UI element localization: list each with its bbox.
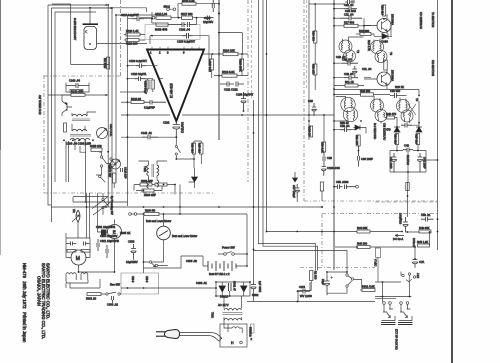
svg-text:UM-3: UM-3	[131, 276, 135, 283]
resistor R110	[156, 16, 171, 19]
diode D4	[355, 125, 360, 130]
right sheet border line	[451, 0, 453, 363]
transistor Q4	[377, 72, 391, 86]
svg-text:C42 100P: C42 100P	[423, 157, 427, 169]
svg-text:Batt and Lever Meter: Batt and Lever Meter	[172, 234, 197, 238]
svg-text:C804 10µF/6V: C804 10µF/6V	[100, 234, 118, 238]
wire sw area	[66, 141, 111, 182]
ferrite antenna FA1 inner line	[85, 31, 87, 34]
wire motor bottom	[79, 245, 115, 273]
press switch lever	[104, 200, 109, 206]
AF bus x266.5	[266, 0, 268, 232]
resistor R115 vertical	[240, 59, 243, 70]
section boundary dash horizontal top-left	[44, 75, 120, 77]
ferrite antenna FA1 top bar	[83, 23, 99, 25]
wire jacks top	[383, 272, 410, 303]
electrolytic C803	[131, 244, 136, 260]
svg-text:R408 4PB: R408 4PB	[155, 28, 167, 32]
svg-text:EXT SP JACK 8Ω: EXT SP JACK 8Ω	[395, 329, 399, 350]
svg-text:C308 .02: C308 .02	[107, 303, 118, 307]
wire y95 left	[48, 94, 71, 96]
wire R114	[202, 33, 248, 54]
resistor R17	[344, 24, 358, 27]
wire y4 top	[52, 3, 71, 5]
wire R30 leads	[314, 4, 316, 90]
electrolytic C136 vertical	[146, 80, 150, 89]
capacitor C120	[121, 168, 123, 172]
svg-text:50/60Hz: 50/60Hz	[249, 327, 253, 337]
band switch S1-1 lever	[102, 158, 107, 164]
svg-text:C28 .04: C28 .04	[344, 72, 354, 76]
right bus x437.5	[437, 0, 439, 250]
jack sw lever	[406, 275, 412, 282]
resistor R301	[87, 293, 101, 296]
svg-text:R19 1K: R19 1K	[395, 85, 404, 89]
mic jack contact b	[134, 213, 137, 216]
capacitor C118	[144, 100, 166, 105]
page left edge lower	[0, 150, 2, 255]
wire y8.7	[334, 8, 344, 10]
wire y247	[335, 246, 415, 248]
capacitor C110	[134, 77, 145, 82]
svg-text:10µF/6V: 10µF/6V	[203, 20, 213, 24]
rec switch S3a	[149, 261, 151, 263]
electrolytic C34	[322, 166, 327, 176]
capacitor C811	[298, 289, 310, 294]
IF bus x334	[333, 0, 335, 270]
wire sw2 row	[140, 9, 173, 18]
C809 plus	[331, 276, 334, 279]
svg-text:C160 10µF/4T: C160 10µF/4T	[236, 93, 254, 97]
resistor R119	[126, 33, 140, 36]
resistor R42 vertical	[320, 182, 323, 191]
motor sw levers	[348, 276, 352, 285]
motor M	[71, 250, 86, 265]
IC pin ticks top	[152, 47, 199, 50]
svg-text:9: 9	[183, 51, 185, 55]
wire R113	[214, 75, 248, 77]
T4 T5 leads	[374, 96, 410, 123]
resistor R113	[222, 74, 237, 77]
trimmer CT101 arrow	[98, 129, 107, 138]
wire top y4	[309, 3, 345, 5]
svg-text:C114 6.2µF/4T: C114 6.2µF/4T	[121, 13, 139, 17]
svg-text:Power SW: Power SW	[222, 246, 235, 250]
svg-text:2SC633A: 2SC633A	[391, 14, 395, 25]
battery cells	[208, 261, 236, 271]
svg-text:UM-3: UM-3	[145, 276, 149, 283]
svg-text:CM 1222B1AU: CM 1222B1AU	[383, 123, 387, 140]
capacitor C114	[132, 17, 144, 22]
power switch contact a	[224, 253, 227, 256]
rec switch S3b	[155, 264, 157, 266]
svg-text:C141 .01: C141 .01	[141, 131, 152, 135]
resistor R301b	[362, 289, 375, 292]
svg-text:C160 .04S: C160 .04S	[327, 166, 340, 170]
resistor R120	[182, 2, 196, 5]
dashed power box bottom y267	[300, 267, 375, 269]
resistor network R203	[142, 189, 154, 192]
capacitor C24	[352, 0, 354, 4]
T2 leads	[343, 37, 364, 62]
coil leads	[68, 279, 100, 288]
resistor R45	[418, 244, 430, 247]
svg-text:R16 910: R16 910	[380, 5, 384, 15]
electrolytic C27	[353, 66, 358, 77]
band switch S1-2	[110, 158, 112, 160]
AC plug prong2	[156, 335, 165, 337]
svg-text:2SC633A: 2SC633A	[391, 70, 395, 81]
svg-text:10µF/25V: 10µF/25V	[126, 260, 138, 264]
wire C30	[322, 115, 357, 130]
extra junction dots	[63, 3, 438, 297]
svg-text:IC AN-315: IC AN-315	[170, 83, 174, 98]
section boundary dash vertical left AM	[43, 75, 45, 193]
wire y282	[375, 281, 401, 283]
svg-text:C301 10µF/6PB: C301 10µF/6PB	[96, 225, 115, 229]
cap C605	[106, 245, 108, 258]
wires lower mid	[298, 272, 362, 293]
resistor R43	[419, 230, 431, 233]
wire x252.5 lower	[253, 100, 255, 282]
wire x86.5 down	[86, 193, 88, 238]
AC plug body	[165, 330, 180, 339]
section boundary dash vertical x251	[251, 0, 253, 100]
switch S1-3 a	[99, 175, 101, 177]
svg-text:R301 20: R301 20	[86, 297, 97, 301]
T5 winding b	[403, 113, 410, 117]
svg-text:10µF(1C): 10µF(1C)	[181, 122, 185, 133]
capacitor C53b	[345, 185, 356, 190]
svg-text:C20 .04: C20 .04	[344, 3, 354, 7]
wire coil leads	[72, 112, 96, 150]
switch S2 contact b	[175, 153, 177, 155]
FM trimmer CT102	[111, 159, 121, 169]
battery box outline	[121, 273, 159, 294]
electrolytic C7A	[413, 259, 418, 268]
wire R18	[356, 34, 374, 36]
svg-text:J-12: J-12	[416, 273, 420, 279]
svg-text:R44 80K: R44 80K	[357, 226, 368, 230]
capacitor C16 top	[345, 0, 354, 4]
svg-text:C23 .04: C23 .04	[336, 55, 346, 59]
svg-text:R45 1.2K: R45 1.2K	[417, 240, 428, 244]
svg-text:C53 .0039: C53 .0039	[336, 180, 349, 184]
svg-text:C7A: C7A	[419, 260, 424, 264]
resistor R23 vertical	[192, 143, 195, 154]
motor resistor R601	[67, 250, 76, 253]
AF bus x258.5	[258, 0, 260, 182]
jack SM-2 contact b	[173, 8, 176, 11]
svg-text:C57 100µF: C57 100µF	[292, 185, 296, 198]
T401 core	[152, 164, 154, 177]
vertical x407.5	[406, 182, 420, 232]
T5 cross	[408, 104, 416, 115]
svg-text:R43 80K: R43 80K	[419, 226, 430, 230]
network wires	[134, 185, 175, 195]
svg-text:Batt and Lever Meter: Batt and Lever Meter	[146, 219, 171, 223]
dashed power box horizontal y214	[322, 213, 437, 215]
wire x143.5 to box	[143, 268, 145, 273]
wire IC out down	[175, 137, 177, 145]
wire top h y12	[55, 11, 96, 13]
junction dots bottom	[78, 206, 439, 302]
svg-text:AC 117V: AC 117V	[218, 303, 229, 307]
wire can row	[334, 95, 407, 96]
electrolytic C42	[418, 153, 423, 172]
wire c811	[254, 282, 311, 301]
svg-text:R423 102: R423 102	[90, 144, 102, 148]
jack J2 contact b	[406, 302, 409, 305]
svg-text:R419 1K: R419 1K	[307, 126, 311, 136]
rec switch lever	[108, 292, 116, 294]
dashed power box vertical x322	[321, 214, 323, 267]
wire D401	[194, 168, 196, 188]
aux jack rect	[376, 248, 381, 258]
ext jack sw contacts	[402, 274, 404, 276]
jack J1 base	[381, 323, 396, 325]
second winding	[147, 180, 159, 188]
wire C114	[128, 12, 153, 19]
capacitor C141	[142, 135, 158, 140]
wire x335	[333, 232, 335, 248]
Q3 internals	[382, 20, 388, 31]
svg-text:R301 5.6K: R301 5.6K	[362, 285, 375, 289]
wire meter	[163, 214, 165, 248]
diode D3	[416, 127, 422, 132]
resistor R22	[387, 116, 395, 119]
wire into IC pin1	[124, 18, 197, 40]
svg-text:VR: VR	[72, 209, 76, 213]
capacitor C26	[342, 61, 358, 66]
wire antenna riser x70.7	[70, 4, 72, 65]
more junction dots	[143, 17, 358, 248]
resistor R424 vertical	[113, 173, 116, 183]
resistor R304	[144, 213, 159, 216]
svg-text:R120 3.6K: R120 3.6K	[182, 0, 195, 3]
press switch S601 a	[102, 198, 104, 200]
resistor R112	[126, 39, 139, 42]
vertical x180	[179, 185, 181, 215]
svg-text:R117 390: R117 390	[181, 12, 193, 16]
wire C100	[128, 65, 158, 67]
resistor R30 vertical	[314, 31, 317, 43]
coil L601a	[66, 273, 76, 283]
svg-text:FM SECTION: FM SECTION	[431, 60, 435, 76]
svg-text:R113 5.6K: R113 5.6K	[222, 70, 235, 74]
wire diag to VR	[92, 193, 112, 215]
AF bus x263	[262, 0, 264, 207]
jack SM-2 contact a	[167, 8, 170, 11]
capacitor C28	[344, 76, 358, 81]
capacitor C40	[403, 148, 413, 153]
jack J2 contact a	[400, 302, 403, 305]
wire y137	[121, 136, 176, 138]
wire bus x127.5	[127, 15, 129, 206]
junction dots IF	[308, 3, 438, 173]
Q4 internals	[382, 74, 388, 85]
wire C110	[128, 78, 154, 80]
vertical x143.5	[143, 216, 145, 269]
svg-text:1: 1	[150, 51, 152, 55]
wire y214 to 247	[180, 213, 247, 215]
erase head circle E	[108, 225, 122, 239]
resistor R419 vertical	[309, 126, 312, 137]
svg-text:470: 470	[386, 128, 391, 132]
svg-text:SM-2: SM-2	[164, 5, 171, 9]
rec switch lever	[151, 263, 155, 267]
wire meter to rec switch	[152, 248, 164, 262]
wire Q101 collector	[62, 95, 71, 116]
svg-text:100µF/10: 100µF/10	[399, 213, 403, 225]
svg-text:C33: C33	[327, 156, 332, 160]
svg-text:C132: C132	[163, 121, 170, 125]
switch S1-3 lever	[101, 177, 106, 182]
wire R23 R25	[194, 141, 201, 168]
resistor R1 vertical	[310, 271, 313, 281]
motor caps C602	[84, 242, 90, 246]
capacitor C105 above IC	[182, 33, 193, 39]
wire y186	[297, 191, 322, 202]
AC cord 2	[180, 336, 221, 342]
svg-text:R114 10K: R114 10K	[223, 49, 235, 53]
voltage selector box	[220, 324, 247, 347]
svg-text:TA SECTION: TA SECTION	[431, 12, 435, 27]
dashed line y202 right	[375, 201, 437, 203]
capacitor C122	[236, 82, 244, 87]
resistor R21 vertical	[357, 135, 360, 146]
D802 bar	[241, 285, 248, 287]
capacitor C50	[390, 93, 401, 98]
diode D2	[394, 127, 400, 132]
rec switch contacts	[106, 293, 108, 295]
capacitor C60	[421, 217, 434, 222]
wire y250.6	[254, 251, 348, 272]
svg-text:R802: R802	[252, 293, 259, 297]
section boundary dash vertical x307	[306, 0, 308, 90]
coil L601b	[81, 273, 88, 280]
svg-text:R17 560: R17 560	[344, 21, 355, 25]
svg-text:R119 1.4K: R119 1.4K	[126, 29, 139, 33]
svg-text:C204: C204	[204, 16, 211, 20]
wire y64.5	[71, 64, 109, 66]
wire det out	[408, 160, 438, 182]
resistor R140	[70, 90, 83, 93]
svg-text:R-6 RECORD: R-6 RECORD	[373, 123, 377, 139]
battery meter circle	[157, 226, 171, 240]
transformer T801 primary	[224, 308, 242, 310]
capacitor C102	[188, 22, 193, 27]
wire D1	[374, 15, 392, 36]
wire det	[381, 101, 419, 127]
svg-text:C808 .01: C808 .01	[196, 281, 207, 285]
capacitor C39	[401, 123, 412, 128]
vertical x247 right	[246, 214, 248, 266]
phono eq box	[145, 25, 200, 40]
IF bus x309	[308, 0, 310, 140]
resistor R26 vertical	[322, 142, 325, 152]
svg-text:Rec SW: Rec SW	[110, 283, 120, 287]
resistor R117	[182, 16, 193, 19]
wire E head	[98, 193, 115, 245]
svg-text:R46 200: R46 200	[357, 242, 368, 246]
svg-text:C41 100P: C41 100P	[389, 157, 393, 169]
wire lamp	[211, 54, 213, 78]
diode D401	[189, 177, 198, 182]
meter needle	[159, 231, 168, 237]
output transformer T401 left winding	[147, 165, 159, 176]
svg-text:NM-479 26th July 1972 Prin: NM-479 26th July 1972 Printed in Japan	[22, 263, 27, 343]
T3 winding a	[373, 44, 381, 51]
capacitor C115	[212, 0, 214, 12]
wire R304	[159, 213, 180, 215]
svg-text:C106 .04 C108 120P: C106 .04 C108 120P	[66, 142, 91, 146]
wire battery negative	[144, 256, 182, 268]
wire x415 down	[415, 232, 430, 259]
svg-text:C50 680: C50 680	[390, 89, 401, 93]
contact J101	[152, 16, 155, 19]
jack J1 body	[382, 304, 396, 320]
wire y196	[73, 196, 108, 198]
svg-text:C811 10µF/6PB: C811 10µF/6PB	[100, 239, 119, 243]
resistor R120A 47K	[71, 93, 85, 96]
svg-text:R13 4.7K: R13 4.7K	[367, 40, 371, 51]
svg-text:2: 2	[159, 51, 161, 55]
double wire y296.5	[375, 297, 412, 299]
resistor R423	[91, 148, 102, 151]
electrolytic C810	[251, 282, 256, 293]
electrolytic C57	[295, 184, 300, 197]
svg-text:R21 10K: R21 10K	[355, 135, 359, 145]
svg-text:WV 2,000: WV 2,000	[300, 294, 312, 298]
jack wire	[131, 213, 144, 215]
wire R120A to Q101	[85, 94, 108, 96]
selector coil	[232, 327, 239, 328]
svg-text:C102 .04: C102 .04	[179, 28, 190, 32]
capacitor C30	[340, 128, 352, 133]
wire R17	[334, 25, 364, 27]
capacitor C100	[136, 64, 146, 69]
T3 leads	[374, 39, 384, 63]
svg-text:C100 6.2µF/4T: C100 6.2µF/4T	[129, 59, 147, 63]
svg-text:C801 47: C801 47	[233, 281, 237, 291]
resistor R118	[131, 101, 144, 104]
electrolytic C29	[312, 103, 317, 116]
wire antenna top	[90, 8, 147, 12]
svg-text:50µF: 50µF	[321, 279, 325, 285]
capacitor C53a	[334, 185, 343, 190]
svg-text:C803: C803	[128, 240, 135, 244]
resistor R422 vertical	[64, 123, 67, 132]
resistor R25 vertical	[200, 143, 203, 154]
wire y102 left	[121, 101, 131, 103]
resistor R108	[156, 23, 168, 26]
electrolytic C59	[403, 217, 408, 232]
svg-text:R120 47K: R120 47K	[71, 90, 83, 94]
section boundary dash vertical x121	[119, 0, 121, 76]
capacitor C36	[358, 146, 360, 167]
VR wiper	[72, 215, 79, 222]
AM osc coil T101 upper	[72, 114, 87, 116]
svg-text:R23 910: R23 910	[190, 143, 194, 153]
wire sw3	[144, 262, 168, 266]
resistor R24 vertical	[395, 134, 398, 145]
battery wires	[181, 256, 247, 266]
svg-text:T401: T401	[143, 166, 147, 172]
T4 winding a	[373, 102, 381, 109]
wire aux jack	[377, 258, 379, 283]
D801 bar	[219, 285, 226, 287]
